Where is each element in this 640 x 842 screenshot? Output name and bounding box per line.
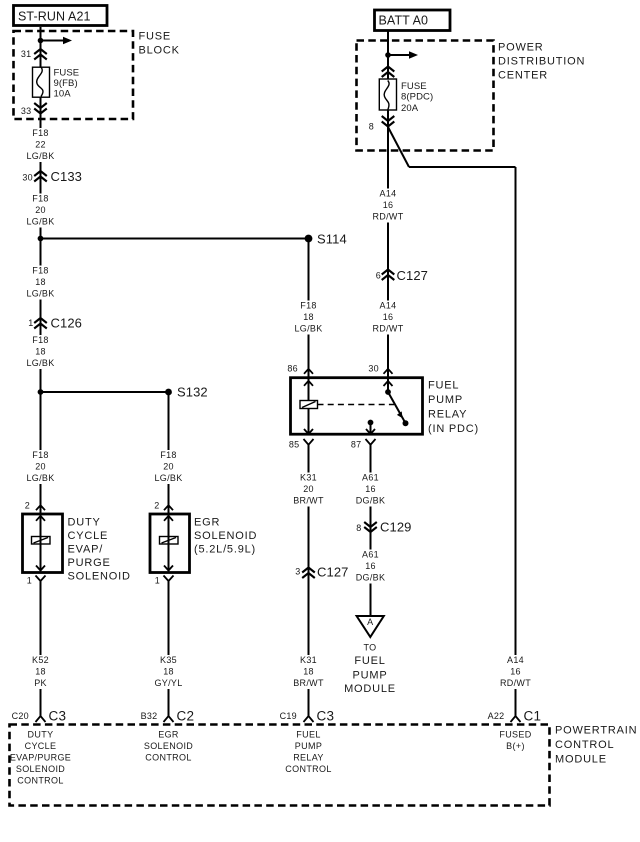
- svg-text:DUTY: DUTY: [68, 517, 101, 529]
- svg-text:C2: C2: [177, 709, 195, 724]
- svg-text:C19: C19: [280, 711, 297, 721]
- pin 1 duty cycle solenoid: [27, 576, 46, 586]
- svg-text:8: 8: [369, 122, 374, 132]
- wire label A14 16 RD/WT: [370, 301, 406, 335]
- power distribution center enclosure: [357, 41, 586, 151]
- svg-text:8: 8: [356, 523, 361, 533]
- svg-text:9(FB): 9(FB): [54, 78, 78, 89]
- svg-text:A14: A14: [380, 189, 397, 199]
- svg-text:30: 30: [368, 364, 379, 374]
- wire label A61 16 DG/BK: [352, 473, 389, 507]
- EGR solenoid L2: [150, 514, 257, 573]
- svg-text:18: 18: [35, 347, 46, 357]
- svg-text:SOLENOID: SOLENOID: [16, 764, 65, 774]
- svg-text:C126: C126: [51, 316, 82, 331]
- svg-text:1: 1: [27, 576, 32, 586]
- pin 30 fuel pump relay: [368, 364, 392, 374]
- svg-text:POWER: POWER: [498, 42, 544, 54]
- svg-text:(5.2L/5.9L): (5.2L/5.9L): [194, 544, 256, 556]
- svg-text:C3: C3: [317, 709, 335, 724]
- svg-text:20: 20: [303, 484, 314, 494]
- svg-text:SOLENOID: SOLENOID: [194, 530, 257, 542]
- svg-text:1: 1: [155, 576, 160, 586]
- svg-text:K31: K31: [300, 655, 317, 665]
- wire label F18 18 LG/BK: [23, 335, 58, 369]
- node EGR solenoid control: [144, 730, 193, 763]
- node S132 splice: [38, 385, 208, 400]
- svg-text:PUMP: PUMP: [428, 394, 463, 406]
- pin 87 fuel pump relay: [351, 439, 376, 450]
- svg-text:K31: K31: [300, 473, 317, 483]
- svg-text:FUEL: FUEL: [296, 730, 320, 740]
- svg-text:87: 87: [351, 440, 362, 450]
- svg-text:CONTROL: CONTROL: [145, 753, 191, 763]
- wire fuse 8 output down to relay pin 30: [387, 110, 389, 378]
- svg-text:1: 1: [28, 318, 33, 328]
- svg-text:FUSE: FUSE: [54, 68, 80, 79]
- svg-text:85: 85: [289, 440, 300, 450]
- wire ST-RUN feed to fuse 9: [40, 27, 42, 67]
- svg-text:F18: F18: [32, 266, 48, 276]
- wire duty solenoid to PCM C20: [40, 581, 42, 716]
- svg-text:S114: S114: [317, 232, 347, 247]
- svg-text:FUSED: FUSED: [499, 730, 531, 740]
- svg-text:20: 20: [35, 462, 46, 472]
- svg-text:16: 16: [365, 484, 376, 494]
- svg-text:2: 2: [25, 501, 30, 511]
- svg-text:BR/WT: BR/WT: [293, 496, 324, 506]
- wire label F18 20 LG/BK (duty branch): [23, 450, 58, 484]
- wire label A14 16 RD/WT (fused B+): [497, 655, 534, 689]
- wire relay pin 87 down to fuel pump module: [370, 445, 372, 616]
- svg-text:MODULE: MODULE: [344, 683, 396, 695]
- svg-text:FUEL: FUEL: [354, 655, 385, 667]
- svg-text:8(PDC): 8(PDC): [401, 92, 433, 103]
- wire label F18 20 LG/BK: [23, 194, 58, 228]
- svg-text:A: A: [367, 617, 373, 627]
- svg-text:K35: K35: [160, 655, 177, 665]
- pin 2 duty cycle solenoid: [25, 501, 45, 511]
- svg-text:RD/WT: RD/WT: [373, 324, 404, 334]
- svg-text:16: 16: [365, 561, 376, 571]
- svg-text:K52: K52: [32, 655, 49, 665]
- svg-text:CONTROL: CONTROL: [555, 739, 614, 751]
- svg-text:10A: 10A: [54, 89, 72, 100]
- pin 31 connector chevrons: [21, 49, 47, 60]
- svg-text:DUTY: DUTY: [28, 730, 54, 740]
- connector C133 pin 30: [22, 169, 82, 184]
- svg-text:LG/BK: LG/BK: [26, 358, 54, 368]
- svg-text:F18: F18: [32, 335, 48, 345]
- wire S114 down to relay pin 86: [308, 239, 310, 378]
- svg-text:RD/WT: RD/WT: [373, 212, 404, 222]
- svg-text:EGR: EGR: [194, 517, 220, 529]
- svg-text:18: 18: [163, 667, 174, 677]
- pin A22 connector C1: [488, 709, 542, 724]
- svg-text:C1: C1: [524, 709, 542, 724]
- svg-text:RD/WT: RD/WT: [500, 678, 531, 688]
- svg-text:BATT A0: BATT A0: [379, 14, 429, 28]
- svg-text:C133: C133: [51, 169, 82, 184]
- svg-text:LG/BK: LG/BK: [154, 473, 182, 483]
- svg-text:22: 22: [35, 140, 46, 150]
- svg-text:C3: C3: [49, 709, 67, 724]
- node junction with feed arrow: [385, 51, 418, 58]
- svg-text:CYCLE: CYCLE: [25, 741, 57, 751]
- svg-text:20: 20: [163, 462, 174, 472]
- svg-text:F18: F18: [160, 450, 176, 460]
- connector C127 pin 3: [295, 565, 348, 580]
- node ST-RUN A21: [14, 6, 108, 26]
- svg-text:BR/WT: BR/WT: [293, 678, 324, 688]
- svg-text:LG/BK: LG/BK: [26, 473, 54, 483]
- svg-text:CONTROL: CONTROL: [285, 764, 331, 774]
- svg-text:C20: C20: [12, 711, 29, 721]
- svg-text:16: 16: [510, 667, 521, 677]
- node BATT A0: [375, 10, 451, 31]
- node duty cycle evap/purge solenoid control: [10, 730, 71, 786]
- wire BATT feed to fuse 8: [387, 31, 389, 80]
- svg-text:FUSE: FUSE: [401, 81, 427, 92]
- wire label F18 18 LG/BK: [23, 266, 58, 300]
- wire label K35 18 GY/YL: [150, 655, 187, 689]
- svg-text:EVAP/PURGE: EVAP/PURGE: [10, 753, 71, 763]
- wire fuse 9 output down to S114: [40, 97, 42, 239]
- svg-text:16: 16: [383, 312, 394, 322]
- svg-text:EVAP/: EVAP/: [68, 544, 104, 556]
- pin 2 EGR solenoid: [154, 501, 173, 511]
- svg-text:MODULE: MODULE: [555, 754, 607, 766]
- svg-text:POWERTRAIN: POWERTRAIN: [555, 725, 637, 737]
- svg-text:DISTRIBUTION: DISTRIBUTION: [498, 56, 585, 68]
- fuse block enclosure: [14, 31, 180, 120]
- svg-text:GY/YL: GY/YL: [154, 678, 182, 688]
- svg-text:S132: S132: [177, 385, 208, 400]
- svg-text:C129: C129: [380, 520, 411, 535]
- svg-text:A61: A61: [362, 550, 379, 560]
- connector C127 pin 6: [376, 268, 428, 283]
- wire label K31 20 BR/WT: [290, 473, 327, 507]
- wire label F18 22 LG/BK: [23, 128, 58, 162]
- fuse F8 (PDC) 20A: [379, 79, 433, 114]
- svg-text:B32: B32: [141, 711, 158, 721]
- svg-text:20: 20: [35, 205, 46, 215]
- svg-text:A61: A61: [362, 473, 379, 483]
- svg-text:PUMP: PUMP: [295, 741, 322, 751]
- svg-text:A22: A22: [488, 711, 505, 721]
- wire right run down to PCM A22: [515, 167, 517, 716]
- svg-text:F18: F18: [32, 128, 48, 138]
- off-page connector A to fuel pump module: [344, 616, 396, 695]
- svg-text:FUSE: FUSE: [139, 31, 172, 43]
- wire label F18 20 LG/BK (EGR branch): [151, 450, 186, 484]
- connector C129 pin 8: [356, 520, 411, 535]
- svg-text:18: 18: [303, 667, 314, 677]
- svg-text:3: 3: [295, 567, 300, 577]
- wire S114 down to S132: [40, 239, 42, 393]
- svg-text:PURGE: PURGE: [68, 557, 111, 569]
- wire label K52 18 PK: [23, 655, 58, 689]
- svg-text:ST-RUN A21: ST-RUN A21: [18, 10, 91, 24]
- connector C126 pin 1: [28, 316, 82, 331]
- svg-text:(IN PDC): (IN PDC): [428, 423, 479, 435]
- svg-text:RELAY: RELAY: [428, 409, 467, 421]
- wire label A61 16 DG/BK: [352, 550, 389, 584]
- pin C19 connector C3: [280, 709, 335, 724]
- svg-text:16: 16: [383, 200, 394, 210]
- svg-text:PUMP: PUMP: [353, 669, 388, 681]
- wire branch diagonal to fused B(+) run: [388, 127, 409, 167]
- powertrain control module enclosure: [10, 725, 638, 806]
- svg-text:31: 31: [21, 49, 32, 59]
- svg-text:LG/BK: LG/BK: [26, 289, 54, 299]
- svg-text:A14: A14: [507, 655, 524, 665]
- svg-text:C127: C127: [397, 268, 428, 283]
- wire relay pin 85 down to PCM C19: [308, 445, 310, 716]
- svg-text:CYCLE: CYCLE: [68, 530, 109, 542]
- svg-text:18: 18: [303, 312, 314, 322]
- wire EGR solenoid to PCM B32: [168, 581, 170, 716]
- svg-text:20A: 20A: [401, 103, 419, 114]
- svg-text:18: 18: [35, 277, 46, 287]
- wire label K31 18 BR/WT: [290, 655, 327, 689]
- fuse F9 (FB) 10A: [33, 67, 80, 99]
- svg-text:EGR: EGR: [158, 730, 179, 740]
- node S114 splice: [38, 232, 347, 247]
- svg-text:PK: PK: [34, 678, 47, 688]
- pin 1 EGR solenoid: [155, 576, 174, 586]
- svg-text:CONTROL: CONTROL: [17, 776, 63, 786]
- wire label F18 18 LG/BK (relay coil feed): [291, 301, 326, 335]
- svg-text:C127: C127: [317, 565, 348, 580]
- svg-text:SOLENOID: SOLENOID: [144, 741, 193, 751]
- svg-text:LG/BK: LG/BK: [26, 151, 54, 161]
- node fused B(+): [499, 730, 531, 752]
- svg-text:F18: F18: [32, 450, 48, 460]
- wire label A14 16 RD/WT: [370, 189, 406, 223]
- pin B32 connector C2: [141, 709, 195, 724]
- wire EGR branch down: [168, 392, 170, 514]
- svg-text:18: 18: [35, 667, 46, 677]
- svg-text:LG/BK: LG/BK: [26, 217, 54, 227]
- svg-text:FUEL: FUEL: [428, 380, 459, 392]
- svg-text:BLOCK: BLOCK: [139, 45, 180, 57]
- svg-text:86: 86: [287, 364, 298, 374]
- svg-text:B(+): B(+): [506, 741, 525, 751]
- svg-text:2: 2: [154, 501, 159, 511]
- svg-text:A14: A14: [380, 301, 397, 311]
- pin C20 connector C3: [12, 709, 67, 724]
- svg-text:DG/BK: DG/BK: [356, 573, 386, 583]
- wire S132 down to duty cycle solenoid: [40, 392, 42, 514]
- svg-text:DG/BK: DG/BK: [356, 496, 386, 506]
- pin 8 connector chevrons: [369, 116, 395, 132]
- wire horizontal to right run: [409, 166, 516, 168]
- svg-text:30: 30: [22, 173, 33, 183]
- svg-text:6: 6: [376, 271, 381, 281]
- duty cycle EVAP/purge solenoid L1: [23, 514, 131, 583]
- node junction with feed arrow: [38, 37, 72, 44]
- fuse 8 input connector chevrons: [382, 67, 395, 78]
- pin 86 fuel pump relay: [287, 364, 313, 374]
- pin 85 fuel pump relay: [289, 439, 314, 450]
- fuel pump relay U1 (in PDC): [291, 378, 480, 435]
- svg-text:TO: TO: [364, 643, 377, 653]
- svg-text:SOLENOID: SOLENOID: [68, 571, 131, 583]
- svg-text:F18: F18: [300, 301, 316, 311]
- node fuel pump relay control: [285, 730, 331, 775]
- svg-text:RELAY: RELAY: [293, 753, 324, 763]
- svg-text:LG/BK: LG/BK: [294, 324, 322, 334]
- svg-text:CENTER: CENTER: [498, 70, 548, 82]
- svg-text:F18: F18: [32, 194, 48, 204]
- pin 33 connector chevrons: [21, 103, 47, 116]
- svg-text:33: 33: [21, 106, 32, 116]
